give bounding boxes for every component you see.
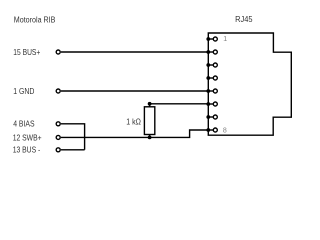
wire SWB+ to RJ45 pin 8 with jog [61,130,208,137]
wire resistor top stub [149,104,151,107]
svg-text:8: 8 [223,127,227,134]
svg-text:1: 1 [223,36,227,43]
svg-text:13 BUS -: 13 BUS - [13,146,41,155]
terminal 4 BIAS [13,120,60,129]
junction resistor bottom [148,136,152,140]
svg-text:15 BUS+: 15 BUS+ [13,48,40,57]
wire BUS- to BIAS vertical [61,149,85,151]
RJ45 connector J1 body [208,33,291,135]
pin 4 of RJ45 [206,76,217,80]
pin 5 of RJ45 [206,89,217,93]
wire BIAS right then down to BUS- [61,124,85,150]
terminal 13 BUS - [13,146,61,155]
svg-text:Motorola RIB: Motorola RIB [14,15,56,24]
wire GND to RJ45 pin 5 [61,90,208,92]
svg-text:12 SWB+: 12 SWB+ [13,133,42,142]
wire resistor top to RJ45 pin 6 [150,103,209,105]
wire BUS+ to RJ45 pin 2 [61,51,208,53]
svg-text:4 BIAS: 4 BIAS [13,120,34,129]
terminal 12 SWB+ [13,133,61,142]
junction resistor top [148,102,152,106]
pin 3 of RJ45 [206,63,217,67]
svg-text:1 GND: 1 GND [13,87,34,96]
pin 8 of RJ45 [206,127,226,134]
wire resistor bottom stub [149,135,151,138]
pin 2 of RJ45 [206,50,217,54]
terminal 1 GND [13,87,60,96]
pin 7 of RJ45 [206,115,217,119]
pin 6 of RJ45 [206,102,217,106]
svg-text:RJ45: RJ45 [235,15,253,24]
svg-text:1 kΩ: 1 kΩ [126,117,141,126]
terminal 15 BUS+ [13,48,60,57]
pin 1 of RJ45 [206,36,227,43]
resistor R1 1 kOhm [126,107,155,135]
